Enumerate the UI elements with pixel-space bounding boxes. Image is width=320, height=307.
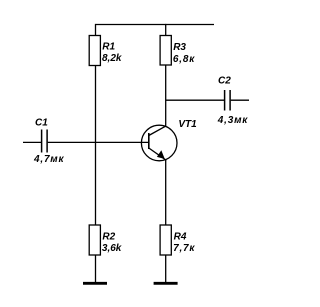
wire: rail to R1 top <box>95 24 97 36</box>
wire: emitter to R4 top <box>165 160 167 225</box>
wire: C2 output <box>231 99 249 101</box>
svg-text:4,3мк: 4,3мк <box>217 115 248 126</box>
svg-text:R3: R3 <box>173 42 186 53</box>
resistor R1 <box>89 36 100 66</box>
svg-text:R2: R2 <box>102 232 115 243</box>
svg-text:R4: R4 <box>174 232 187 243</box>
emitter arrow of VT1 <box>157 150 165 159</box>
svg-text:4,7мк: 4,7мк <box>33 154 64 165</box>
wire: C1 to transistor base <box>48 141 149 143</box>
capacitor C2 <box>224 90 226 111</box>
svg-text:C2: C2 <box>218 76 231 87</box>
ground (right) <box>154 282 178 285</box>
resistor R3 <box>160 36 171 66</box>
wire: R2 bottom to ground <box>95 255 97 283</box>
wire: collector node to C2 <box>166 99 224 101</box>
svg-text:VT1: VT1 <box>178 119 197 130</box>
svg-text:8,2k: 8,2k <box>102 53 122 64</box>
resistor R4 <box>160 225 171 255</box>
svg-text:7,7к: 7,7к <box>173 243 195 254</box>
transistor VT1 <box>141 125 177 161</box>
wire: rail to R3 top <box>165 24 167 36</box>
svg-text:R1: R1 <box>102 42 115 53</box>
wire: top supply rail <box>96 24 215 26</box>
svg-text:3,6k: 3,6k <box>102 243 122 254</box>
wire: R1 bottom to R2 top (left branch, node B) <box>95 66 97 226</box>
ground (left) <box>83 282 107 285</box>
wire: R4 bottom to ground <box>165 255 167 283</box>
wire: input to C1 <box>23 141 41 143</box>
resistor R2 <box>89 225 100 255</box>
wire: R3 bottom to collector (node C) <box>165 65 167 127</box>
svg-text:6,8к: 6,8к <box>173 54 195 65</box>
capacitor C1 <box>41 130 43 153</box>
svg-text:C1: C1 <box>35 118 48 129</box>
